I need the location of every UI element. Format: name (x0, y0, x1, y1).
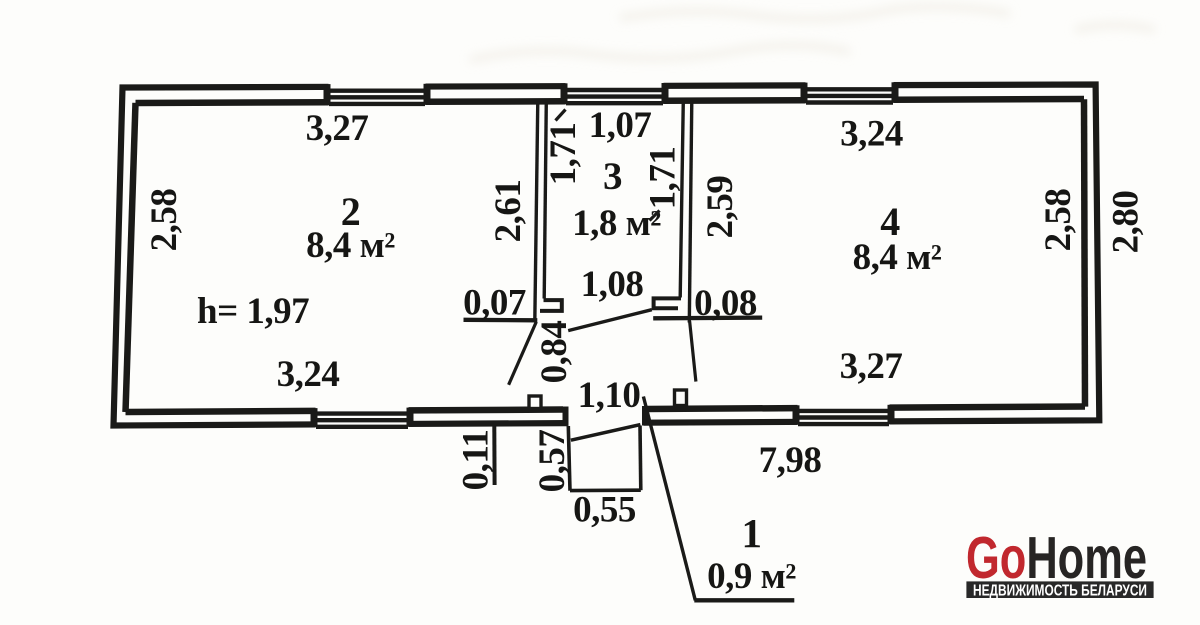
svg-text:h= 1,97: h= 1,97 (197, 291, 309, 332)
wire porch right wall (638, 426, 642, 491)
svg-text:1,08: 1,08 (581, 264, 644, 305)
svg-text:0,07: 0,07 (463, 283, 526, 324)
svg-text:1,71: 1,71 (543, 123, 584, 186)
svg-text:0,57: 0,57 (532, 430, 573, 493)
wire inner bottom wall segment 2 (408, 406, 563, 413)
svg-text:1,71: 1,71 (643, 147, 684, 210)
wire entrance door leaf (571, 425, 641, 441)
wire inner top wall segment 3 (663, 97, 806, 104)
svg-text:2,61: 2,61 (488, 180, 529, 243)
svg-text:2,59: 2,59 (700, 176, 741, 239)
wire inner top wall segment 2 (425, 98, 566, 105)
svg-text:3: 3 (603, 155, 622, 198)
svg-text:0,11: 0,11 (456, 430, 497, 491)
svg-text:НЕДВИЖИМОСТЬ БЕЛАРУСИ: НЕДВИЖИМОСТЬ БЕЛАРУСИ (973, 583, 1147, 600)
wire tick below 1,71 right (650, 211, 660, 221)
window W5 bottom-right (triple line) (798, 403, 890, 426)
wire door jamb hook right (654, 298, 681, 308)
wire inner bottom wall segment 3 (646, 405, 798, 412)
svg-text:2,80: 2,80 (1106, 191, 1147, 254)
svg-text:8,4 м²: 8,4 м² (306, 225, 395, 266)
svg-text:3,27: 3,27 (306, 108, 369, 149)
svg-text:0,08: 0,08 (694, 283, 757, 324)
window W2 top-middle (triple line) (566, 82, 664, 107)
wire entrance right end cap (642, 406, 648, 426)
wire inner bottom wall segment 1 (126, 411, 317, 412)
svg-text:7,98: 7,98 (759, 440, 822, 481)
wire inner bottom wall segment 4 (889, 407, 1085, 408)
svg-text:3,24: 3,24 (840, 114, 903, 155)
wire dim extension line for 0,11 (492, 427, 496, 486)
wire door swing line below left partition (509, 322, 537, 385)
window W4 bottom-left (triple line) (316, 406, 409, 429)
svg-text:GoHome: GoHome (966, 525, 1147, 591)
window W1 top-left (triple line) (329, 82, 426, 107)
wire partition right room3 outer line (689, 100, 692, 323)
svg-text:1,10: 1,10 (578, 375, 641, 416)
wire room3 door leaf line (568, 310, 652, 331)
wire leader underline room 1 (694, 598, 794, 602)
wire partition left room3 outer line (535, 101, 538, 323)
svg-text:0,84: 0,84 (534, 321, 575, 384)
wire dim line under 0,07 (464, 318, 538, 323)
wire leader line room 1 (643, 397, 695, 601)
svg-text:0,55: 0,55 (573, 490, 636, 531)
svg-text:2,58: 2,58 (144, 189, 185, 252)
wire extension line below right partition (690, 321, 696, 382)
svg-text:1: 1 (742, 510, 762, 556)
wire entrance left end cap (563, 407, 569, 426)
wire inner top wall segment 1 (136, 99, 330, 106)
wire partition right room3 inner line (680, 100, 683, 298)
wire porch bottom wall (570, 488, 641, 492)
svg-text:1,07: 1,07 (589, 105, 652, 146)
window W3 top-right (triple line) (806, 81, 894, 105)
node vent bump left (529, 396, 541, 409)
svg-text:2,58: 2,58 (1038, 189, 1079, 252)
wire tick above 1,71 left (556, 110, 566, 121)
wire partition left room3 inner line (544, 101, 546, 299)
wire door jamb hook left (540, 300, 562, 311)
node vent bump right (675, 390, 687, 406)
wire inner left wall (126, 103, 136, 412)
wire porch left wall (568, 426, 570, 491)
wire dim line under 0,08 (653, 315, 762, 320)
svg-text:8,4 м²: 8,4 м² (853, 237, 942, 278)
wire inner right wall (1084, 99, 1085, 406)
wire inner top wall segment 4 (893, 96, 1084, 103)
svg-text:3,24: 3,24 (277, 354, 340, 395)
wire outer wall outline (with entrance gap at bottom) (114, 85, 1100, 426)
svg-text:0,9 м²: 0,9 м² (707, 556, 796, 597)
svg-text:3,27: 3,27 (840, 346, 903, 387)
node GoHome banner (966, 581, 1153, 598)
